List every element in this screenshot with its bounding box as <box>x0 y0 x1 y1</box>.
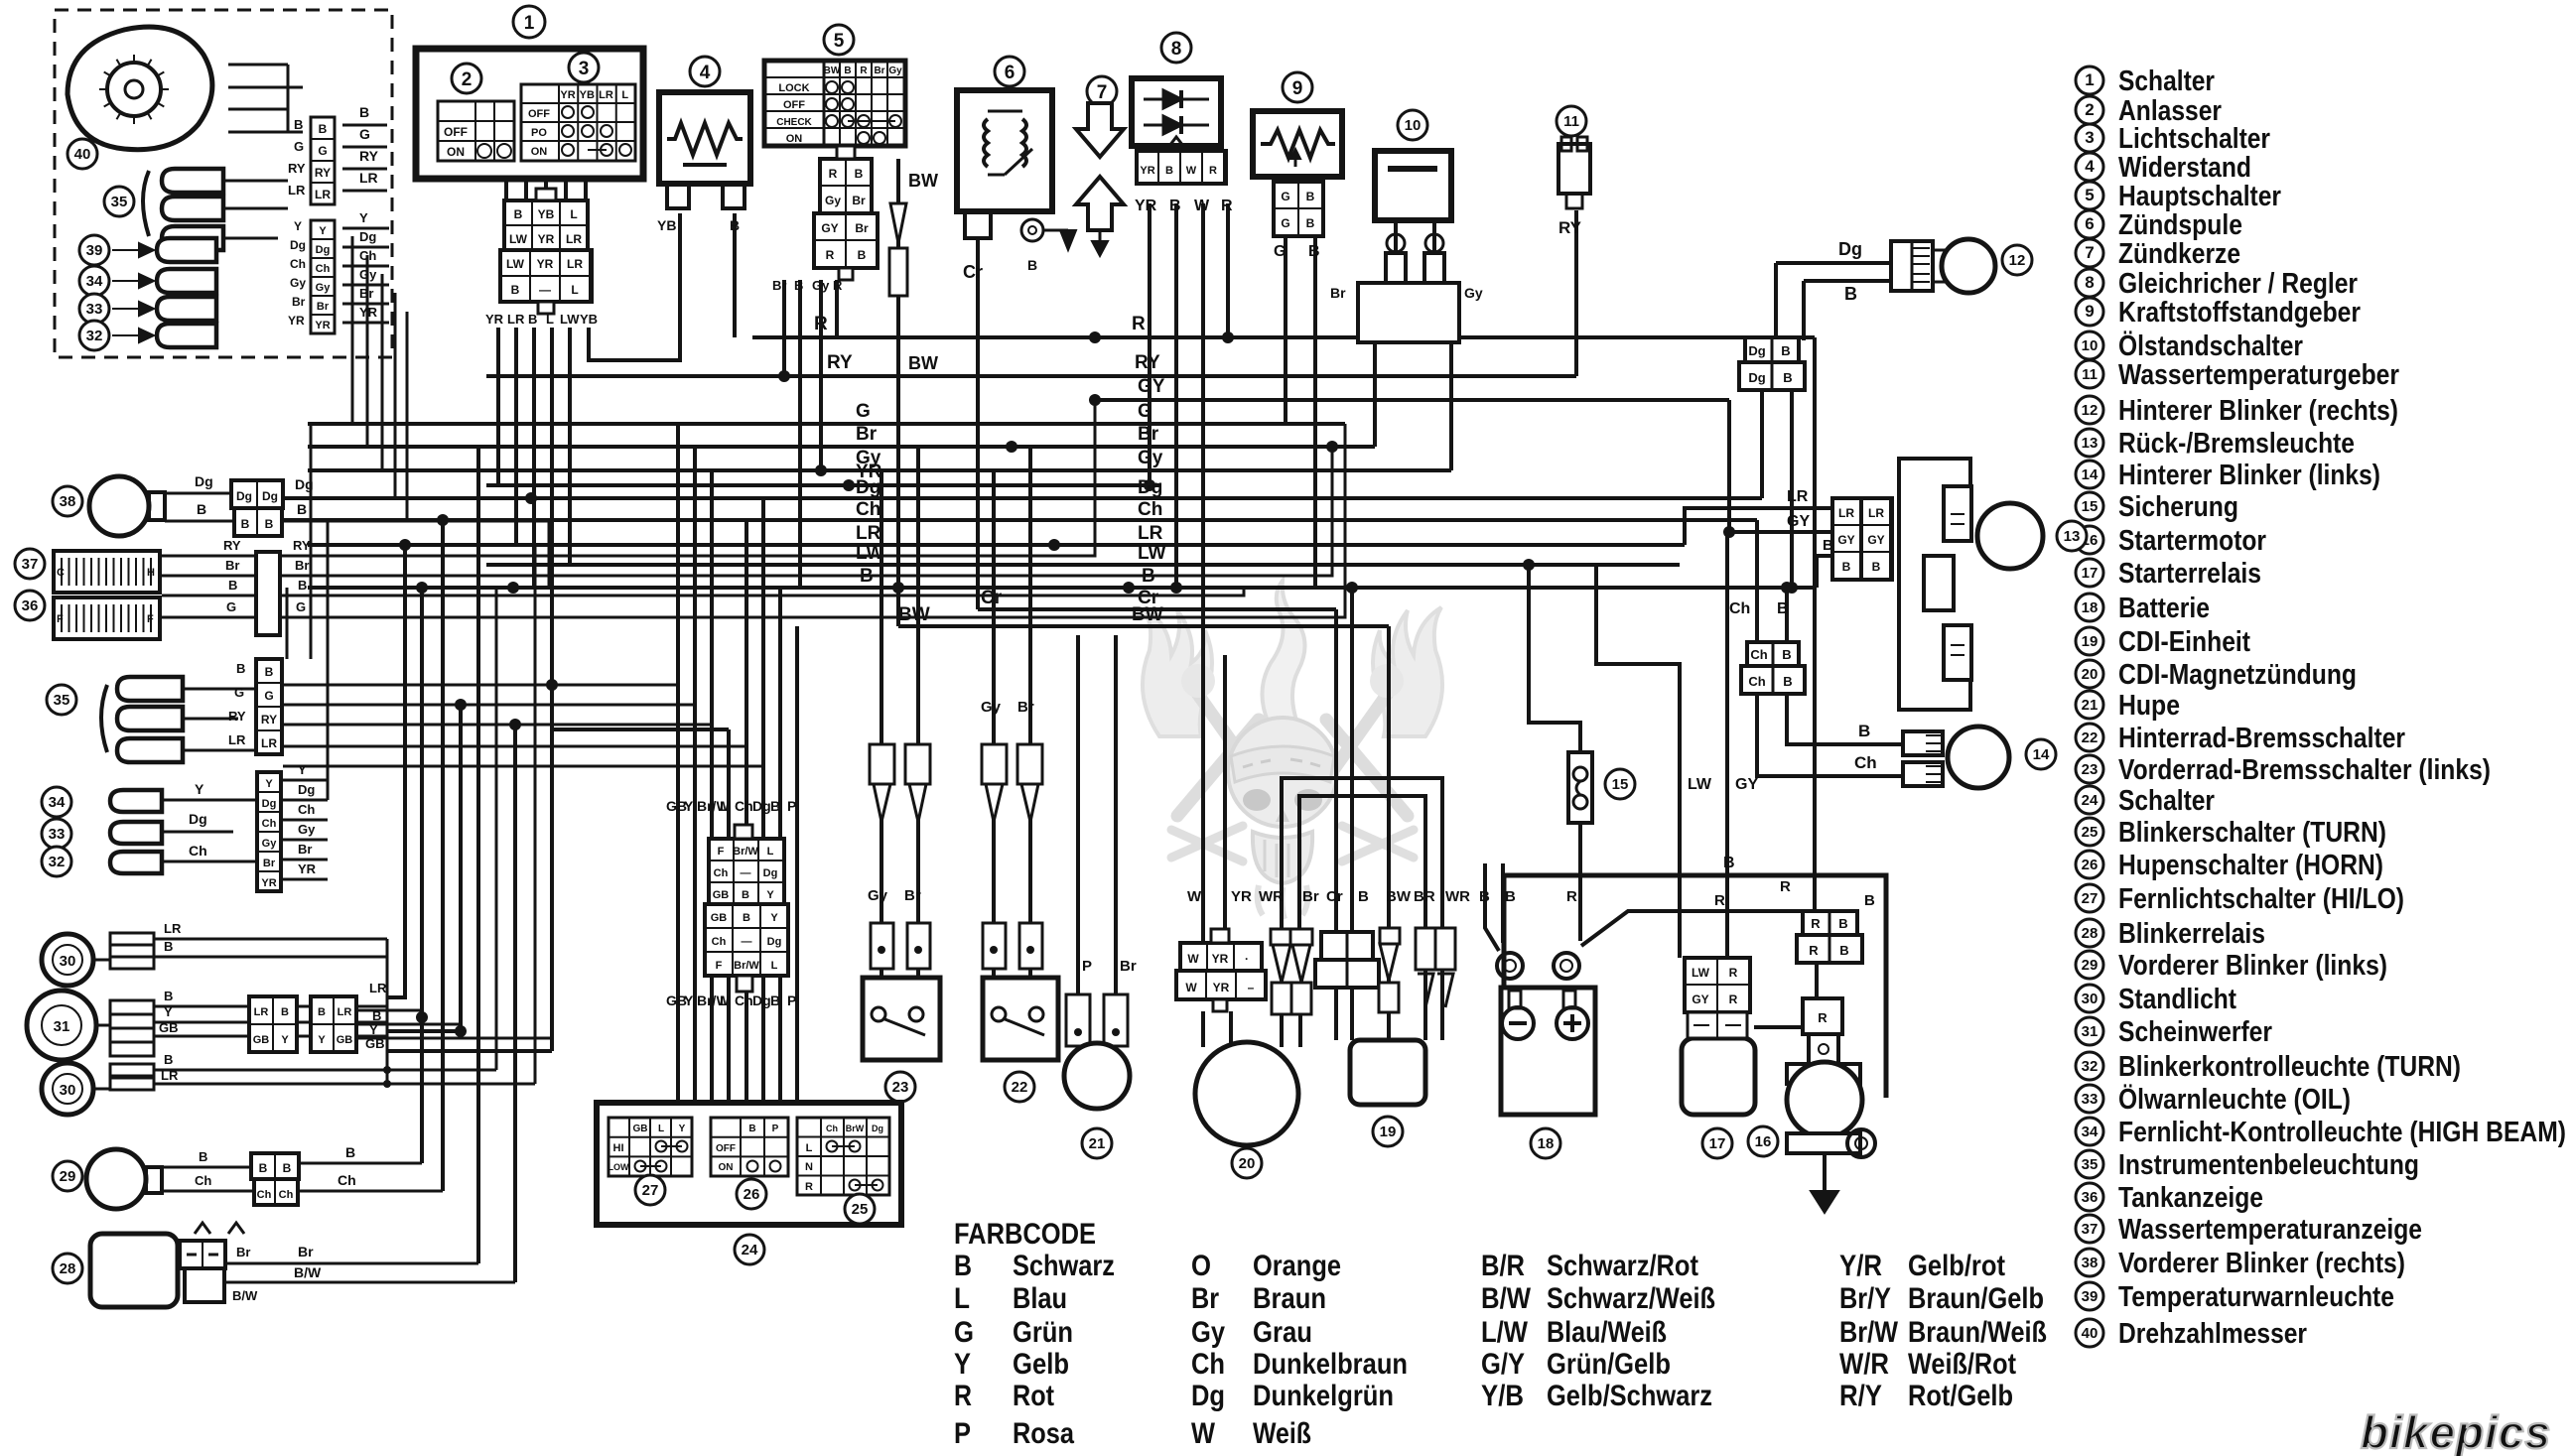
svg-text:B: B <box>1783 370 1792 385</box>
svg-text:Dg: Dg <box>752 993 771 1008</box>
connector below main switch 5 <box>820 159 872 213</box>
svg-text:GY: GY <box>1735 776 1758 793</box>
svg-text:Dg: Dg <box>1748 343 1765 358</box>
svg-text:Br: Br <box>292 295 306 309</box>
svg-text:23: 23 <box>892 1079 909 1096</box>
svg-text:P: P <box>954 1417 971 1450</box>
svg-text:Br: Br <box>1330 285 1346 301</box>
svg-text:Cr: Cr <box>981 588 1003 608</box>
svg-text:Rot: Rot <box>1013 1380 1054 1412</box>
wire from fuse down <box>1578 823 1582 941</box>
svg-text:H: H <box>147 567 155 579</box>
svg-text:PO: PO <box>531 127 547 139</box>
svg-text:YR: YR <box>1213 981 1230 994</box>
svg-text:31: 31 <box>54 1018 70 1035</box>
svg-text:LR: LR <box>315 188 331 201</box>
svg-text:L: L <box>720 798 729 814</box>
svg-text:Dg: Dg <box>752 798 771 814</box>
wire GY bus <box>1095 398 1729 402</box>
svg-text:Gy: Gy <box>868 887 888 904</box>
svg-text:R: R <box>1811 916 1821 931</box>
svg-text:Wassertemperaturgeber: Wassertemperaturgeber <box>2118 359 2399 391</box>
svg-text:C: C <box>57 567 65 579</box>
svg-text:27: 27 <box>642 1182 659 1199</box>
CDI unit 19 <box>1350 1040 1425 1105</box>
svg-text:L: L <box>546 312 554 327</box>
svg-text:21: 21 <box>2082 697 2099 714</box>
svg-text:28: 28 <box>2082 925 2099 942</box>
battery 18 <box>1501 988 1595 1115</box>
rear left blinker 14 <box>1903 731 1943 755</box>
svg-text:–: – <box>1248 981 1255 994</box>
oil level switch 10 <box>1375 151 1451 220</box>
svg-text:B: B <box>1844 284 1857 304</box>
svg-text:35: 35 <box>2082 1156 2099 1173</box>
svg-text:33: 33 <box>86 301 103 318</box>
svg-text:LOW: LOW <box>609 1162 629 1172</box>
svg-text:Y/R: Y/R <box>1839 1250 1882 1282</box>
wire Ch from bus to Ch/B connector <box>1755 520 1759 642</box>
svg-text:RY: RY <box>359 148 379 164</box>
svg-text:Dg: Dg <box>1191 1380 1225 1412</box>
svg-text:Gelb/rot: Gelb/rot <box>1908 1250 2005 1282</box>
wire Br from oil switch 10 <box>1373 342 1377 447</box>
thick B wire battery minus loop <box>1504 875 1886 1060</box>
svg-text:YR: YR <box>298 861 317 876</box>
R/B connector right <box>1803 911 1857 935</box>
fuel sender connector <box>1274 182 1323 236</box>
wire B to rear right blinker 12 <box>1804 279 1891 283</box>
wire BW from main switch 5 <box>896 159 900 626</box>
svg-text:FARBCODE: FARBCODE <box>954 1218 1096 1251</box>
svg-text:LR: LR <box>507 312 525 327</box>
svg-text:Br/W: Br/W <box>734 960 759 972</box>
svg-text:Y: Y <box>164 1004 173 1019</box>
svg-text:Blinkerrelais: Blinkerrelais <box>2118 918 2265 950</box>
svg-text:L: L <box>658 1124 664 1134</box>
svg-text:GB: GB <box>337 1034 353 1046</box>
wire R down right side <box>1813 337 1817 911</box>
svg-text:14: 14 <box>2082 466 2099 483</box>
wire GY jog to tail light connector <box>1729 400 1835 532</box>
wires from rectifier 8 <box>1148 203 1151 485</box>
svg-text:Gy: Gy <box>290 276 306 290</box>
svg-text:Sicherung: Sicherung <box>2118 491 2238 523</box>
svg-text:R: R <box>805 1181 813 1193</box>
svg-text:Br: Br <box>1017 699 1034 716</box>
svg-text:OFF: OFF <box>783 99 805 111</box>
svg-text:38: 38 <box>2082 1255 2099 1271</box>
svg-text:R: R <box>954 1380 972 1412</box>
svg-text:L: L <box>621 89 628 101</box>
BR/WR connector above CDI <box>1416 928 1435 970</box>
svg-text:39: 39 <box>86 242 103 259</box>
svg-text:Schalter: Schalter <box>2118 66 2215 97</box>
svg-text:Y: Y <box>281 1034 289 1046</box>
svg-text:ON: ON <box>786 133 803 145</box>
fuse symbol on BW wire <box>890 203 906 243</box>
svg-text:Ch: Ch <box>1138 499 1162 520</box>
svg-text:B: B <box>858 248 867 262</box>
rear brake switch 22 <box>983 978 1058 1060</box>
connectors on horn wires <box>1066 994 1090 1046</box>
svg-text:BrW: BrW <box>846 1124 865 1133</box>
svg-text:GY: GY <box>1787 513 1810 530</box>
svg-text:Gelb: Gelb <box>1013 1348 1069 1381</box>
svg-text:Ch: Ch <box>189 843 207 859</box>
svg-text:32: 32 <box>86 328 103 344</box>
svg-text:G: G <box>264 689 273 703</box>
svg-text:R: R <box>833 278 843 293</box>
svg-text:YB: YB <box>657 217 676 233</box>
svg-text:26: 26 <box>744 1186 760 1203</box>
wires down to Dg/B connector <box>1774 263 1778 340</box>
wire B from starter motor right <box>1884 1060 1889 1098</box>
svg-text:1: 1 <box>2085 70 2094 89</box>
svg-text:36: 36 <box>22 597 39 614</box>
starter switch table 2 <box>438 101 514 161</box>
svg-text:L/W: L/W <box>1481 1316 1529 1349</box>
tail/brake light 13 bracket <box>1899 459 1970 710</box>
svg-text:Gy: Gy <box>825 194 841 207</box>
svg-text:B: B <box>345 1144 355 1160</box>
spark plug 7 <box>1087 76 1117 106</box>
wire RY bus <box>486 374 1576 378</box>
svg-text:P: P <box>1082 958 1092 975</box>
svg-text:GB: GB <box>253 1034 270 1046</box>
svg-text:Br: Br <box>1302 888 1319 905</box>
svg-text:LW: LW <box>509 232 528 246</box>
svg-text:WR: WR <box>1445 888 1470 905</box>
svg-text:L: L <box>720 993 729 1008</box>
svg-text:B: B <box>283 1161 292 1175</box>
wire BR to CDI 19 <box>1423 928 1427 1040</box>
svg-text:Br: Br <box>772 278 786 293</box>
svg-text:Instrumentenbeleuchtung: Instrumentenbeleuchtung <box>2118 1149 2419 1181</box>
svg-text:Wassertemperaturanzeige: Wassertemperaturanzeige <box>2118 1214 2422 1246</box>
svg-text:ON: ON <box>719 1162 734 1173</box>
svg-text:B: B <box>297 501 307 517</box>
svg-text:B: B <box>1864 892 1875 909</box>
svg-text:YR: YR <box>1231 888 1252 905</box>
svg-text:38: 38 <box>60 493 76 510</box>
svg-text:GY: GY <box>1837 533 1854 547</box>
warning lamps 39 34 33 32 <box>79 235 109 265</box>
oil switch pins <box>1394 220 1398 253</box>
svg-text:Dg: Dg <box>872 1124 883 1133</box>
svg-text:B: B <box>1306 216 1315 230</box>
wire GY down to starter relay <box>1725 532 1729 958</box>
headlight wires right of connector <box>356 1009 422 1012</box>
wire into fuse 15 <box>1529 565 1580 752</box>
front right blinker 38 <box>89 476 149 536</box>
svg-text:Dg: Dg <box>298 782 315 797</box>
svg-text:G: G <box>296 599 306 614</box>
svg-text:B: B <box>1308 243 1320 260</box>
svg-text:B: B <box>770 993 780 1008</box>
wire Gy to front brake switch 23 <box>880 470 883 978</box>
water temp gauge 37 <box>54 551 160 593</box>
svg-text:Weiß: Weiß <box>1253 1417 1311 1450</box>
svg-text:R: R <box>829 167 838 181</box>
wire B from switch connector <box>532 328 536 588</box>
svg-text:27: 27 <box>2082 890 2099 907</box>
stair connection wires from instrument connectors <box>283 684 678 687</box>
svg-text:W: W <box>1186 165 1197 177</box>
svg-text:LW: LW <box>506 257 525 271</box>
svg-text:Hupe: Hupe <box>2118 690 2180 722</box>
lower strip riser wires <box>286 588 289 659</box>
svg-text:Blau/Weiß: Blau/Weiß <box>1547 1316 1667 1349</box>
svg-text:Dunkelgrün: Dunkelgrün <box>1253 1380 1394 1412</box>
svg-text:17: 17 <box>1709 1135 1726 1152</box>
svg-text:Ch: Ch <box>712 936 727 948</box>
relay 28 wires <box>225 1262 478 1265</box>
parking light 30 lower <box>42 1063 93 1115</box>
svg-text:10: 10 <box>2082 337 2099 354</box>
svg-text:6: 6 <box>1005 63 1016 83</box>
svg-text:Blinkerschalter (TURN): Blinkerschalter (TURN) <box>2118 817 2386 849</box>
svg-text:Gy: Gy <box>812 278 830 293</box>
wire LW down to starter relay <box>1596 565 1680 958</box>
connector pair on brake switch 22 wires <box>982 744 1007 784</box>
svg-text:G: G <box>954 1316 974 1349</box>
connector strip Y Dg Ch Gy Br YR <box>311 220 335 333</box>
svg-text:35: 35 <box>111 194 128 210</box>
svg-text:R: R <box>826 248 835 262</box>
svg-text:Br: Br <box>855 221 869 235</box>
svg-text:12: 12 <box>2082 402 2099 419</box>
svg-text:19: 19 <box>1380 1124 1397 1140</box>
svg-text:R: R <box>1132 314 1146 334</box>
svg-text:W/R: W/R <box>1839 1348 1889 1381</box>
ignition coil pins <box>965 211 991 238</box>
relay 28 Br riser <box>476 447 480 1263</box>
svg-text:32: 32 <box>49 854 66 870</box>
svg-text:29: 29 <box>2082 957 2099 974</box>
svg-text:W: W <box>1187 888 1202 905</box>
svg-text:Y: Y <box>318 1034 326 1046</box>
gauge connector <box>256 552 280 635</box>
svg-text:11: 11 <box>2082 366 2098 383</box>
gauge wires <box>162 555 256 558</box>
BW connector above CDI <box>1380 928 1400 944</box>
svg-text:39: 39 <box>2082 1288 2099 1305</box>
9-cell connector above switch assembly 24 <box>709 839 784 904</box>
svg-text:34: 34 <box>86 273 103 290</box>
svg-text:Dg: Dg <box>290 238 306 252</box>
svg-text:13: 13 <box>2064 528 2081 545</box>
svg-text:O: O <box>1191 1250 1211 1282</box>
wire B from connector 38 to bus <box>283 521 549 588</box>
svg-text:Dg: Dg <box>1748 370 1765 385</box>
svg-text:G: G <box>1274 243 1286 260</box>
wire G bus <box>308 422 1345 426</box>
svg-text:B/W: B/W <box>294 1264 322 1280</box>
svg-text:Ch: Ch <box>714 867 729 879</box>
wire Gy bus <box>308 468 1451 472</box>
wire R to battery plus terminal <box>1581 911 1803 946</box>
svg-text:Ch: Ch <box>826 1124 838 1133</box>
svg-text:29: 29 <box>60 1168 76 1185</box>
battery ring terminals <box>1497 953 1523 979</box>
svg-text:B: B <box>359 104 369 120</box>
svg-text:B: B <box>1165 165 1173 177</box>
wire Cr bus <box>978 607 1336 611</box>
svg-text:B: B <box>1505 888 1516 905</box>
svg-text:Dg: Dg <box>262 489 278 503</box>
svg-text:B: B <box>294 117 303 132</box>
wire LR from switch connector <box>514 328 518 545</box>
svg-text:G: G <box>856 401 871 422</box>
svg-text:Y: Y <box>359 210 368 225</box>
svg-text:Zündspule: Zündspule <box>2118 209 2242 241</box>
svg-text:40: 40 <box>74 146 91 163</box>
oil switch base <box>1358 283 1459 342</box>
svg-text:BW: BW <box>1132 604 1163 625</box>
headlight connectors <box>110 933 154 945</box>
svg-text:Br: Br <box>904 887 921 904</box>
parking lamp riser B <box>495 588 498 1070</box>
svg-text:R: R <box>1209 165 1217 177</box>
svg-text:Gy: Gy <box>298 822 316 837</box>
svg-text:GB: GB <box>713 889 730 901</box>
svg-text:RY: RY <box>261 713 277 727</box>
svg-text:Zündkerze: Zündkerze <box>2118 238 2240 270</box>
svg-text:Gleichricher / Regler: Gleichricher / Regler <box>2118 268 2358 300</box>
svg-text:Br: Br <box>295 558 309 573</box>
instrument lamps 35 lower cluster <box>101 685 107 752</box>
svg-text:B: B <box>236 661 245 676</box>
svg-text:Gy: Gy <box>262 838 278 850</box>
svg-text:L: L <box>806 1142 813 1154</box>
svg-text:Vorderer Blinker (links): Vorderer Blinker (links) <box>2118 950 2387 982</box>
svg-text:G: G <box>1281 216 1289 230</box>
svg-text:14: 14 <box>2033 746 2050 763</box>
svg-text:Y: Y <box>319 225 327 237</box>
svg-text:18: 18 <box>2082 599 2099 616</box>
wire B from resistor 4 <box>733 213 737 337</box>
relay 28 BrW riser <box>513 725 517 1282</box>
svg-text:4: 4 <box>2085 157 2095 176</box>
wire B from bus to Ch/B connector <box>1785 588 1789 642</box>
wire Ch to rear left blinker 14 <box>1757 694 1903 776</box>
svg-text:B: B <box>1479 888 1490 905</box>
svg-text:Br: Br <box>852 194 866 207</box>
wire BW to CDI 19 <box>1387 626 1391 1040</box>
svg-text:GY: GY <box>1867 533 1884 547</box>
svg-text:17: 17 <box>2082 565 2099 582</box>
svg-text:Br: Br <box>298 1244 314 1259</box>
svg-text:OFF: OFF <box>444 125 468 139</box>
wire L from switch connector <box>552 328 729 729</box>
svg-text:Fernlicht-Kontrolleuchte (HIGH: Fernlicht-Kontrolleuchte (HIGH BEAM) <box>2118 1117 2566 1148</box>
svg-text:L: L <box>771 960 778 972</box>
svg-text:N: N <box>805 1161 813 1173</box>
svg-text:25: 25 <box>2082 824 2099 841</box>
wire Gy to rear brake switch 22 <box>992 470 996 978</box>
svg-text:33: 33 <box>49 826 66 843</box>
svg-text:GY: GY <box>1692 993 1708 1006</box>
svg-text:B: B <box>1842 560 1851 574</box>
svg-text:Hauptschalter: Hauptschalter <box>2118 181 2281 212</box>
svg-text:RY: RY <box>315 166 331 180</box>
svg-text:15: 15 <box>1612 776 1629 793</box>
svg-text:30: 30 <box>60 953 76 970</box>
wire YR from switch connector <box>496 328 500 485</box>
svg-text:Ch: Ch <box>195 1173 211 1188</box>
svg-text:OFF: OFF <box>716 1143 736 1154</box>
svg-text:Br/W: Br/W <box>733 846 758 858</box>
headlight 31 <box>27 991 96 1060</box>
svg-text:B: B <box>730 217 740 233</box>
svg-text:LR: LR <box>164 921 182 936</box>
svg-text:Ch: Ch <box>257 1189 272 1201</box>
svg-text:B: B <box>844 66 851 76</box>
svg-text:B: B <box>1839 943 1848 958</box>
svg-text:Hinterer Blinker (links): Hinterer Blinker (links) <box>2118 460 2380 491</box>
wire Gy from oil switch 10 <box>1449 342 1453 470</box>
svg-text:B: B <box>259 1161 268 1175</box>
svg-text:G: G <box>318 144 327 158</box>
switch assembly box 1 <box>416 49 643 179</box>
wire LW from switch connector <box>568 328 572 565</box>
svg-text:Kraftstoffstandgeber: Kraftstoffstandgeber <box>2118 297 2361 329</box>
svg-text:Rück-/Bremsleuchte: Rück-/Bremsleuchte <box>2118 428 2355 460</box>
wire Dg bus <box>283 496 1762 500</box>
dimmer switch table 27 <box>609 1118 692 1176</box>
svg-text:ON: ON <box>447 145 465 159</box>
svg-text:Ch: Ch <box>279 1189 294 1201</box>
svg-text:R/Y: R/Y <box>1839 1380 1882 1412</box>
svg-text:21: 21 <box>1089 1135 1106 1152</box>
svg-text:24: 24 <box>742 1242 758 1258</box>
svg-text:BW: BW <box>908 171 938 191</box>
Cr/B connector above CDI <box>1321 932 1373 960</box>
svg-text:22: 22 <box>1012 1079 1028 1096</box>
triangle connectors on WR/Br pair <box>1271 929 1292 945</box>
svg-text:Ch: Ch <box>1854 753 1877 772</box>
svg-text:7: 7 <box>2085 243 2094 262</box>
wire G from fuel sender 9 <box>1284 236 1287 424</box>
wires to blinker 38 connector <box>165 492 233 495</box>
wire stubs right of connector <box>342 124 387 127</box>
svg-text:Dg: Dg <box>767 936 782 948</box>
svg-text:Y: Y <box>684 798 694 814</box>
svg-text:Cr: Cr <box>963 262 983 282</box>
svg-text:YR: YR <box>359 305 378 320</box>
svg-text:Dg: Dg <box>763 867 778 879</box>
svg-text:B: B <box>1027 257 1037 273</box>
svg-text:Y: Y <box>954 1348 971 1381</box>
headlight wire B riser joins blinker 29 B <box>420 588 424 1163</box>
svg-text:YR: YR <box>288 314 305 328</box>
svg-text:3: 3 <box>2085 128 2094 147</box>
W/YR connector above magneto <box>1180 943 1262 971</box>
headlight wire LR riser <box>387 545 405 997</box>
svg-text:B: B <box>742 889 749 901</box>
svg-text:B: B <box>372 1008 381 1023</box>
warning lamps 34 33 32 lower <box>42 787 71 817</box>
svg-text:Cr: Cr <box>1326 888 1343 905</box>
svg-text:37: 37 <box>2082 1221 2099 1238</box>
svg-text:Ch: Ch <box>338 1172 356 1188</box>
svg-text:LR: LR <box>856 523 881 544</box>
svg-text:30: 30 <box>2082 991 2099 1007</box>
svg-text:12: 12 <box>2009 252 2026 269</box>
svg-text:R: R <box>1221 198 1233 214</box>
svg-text:35: 35 <box>54 692 70 709</box>
